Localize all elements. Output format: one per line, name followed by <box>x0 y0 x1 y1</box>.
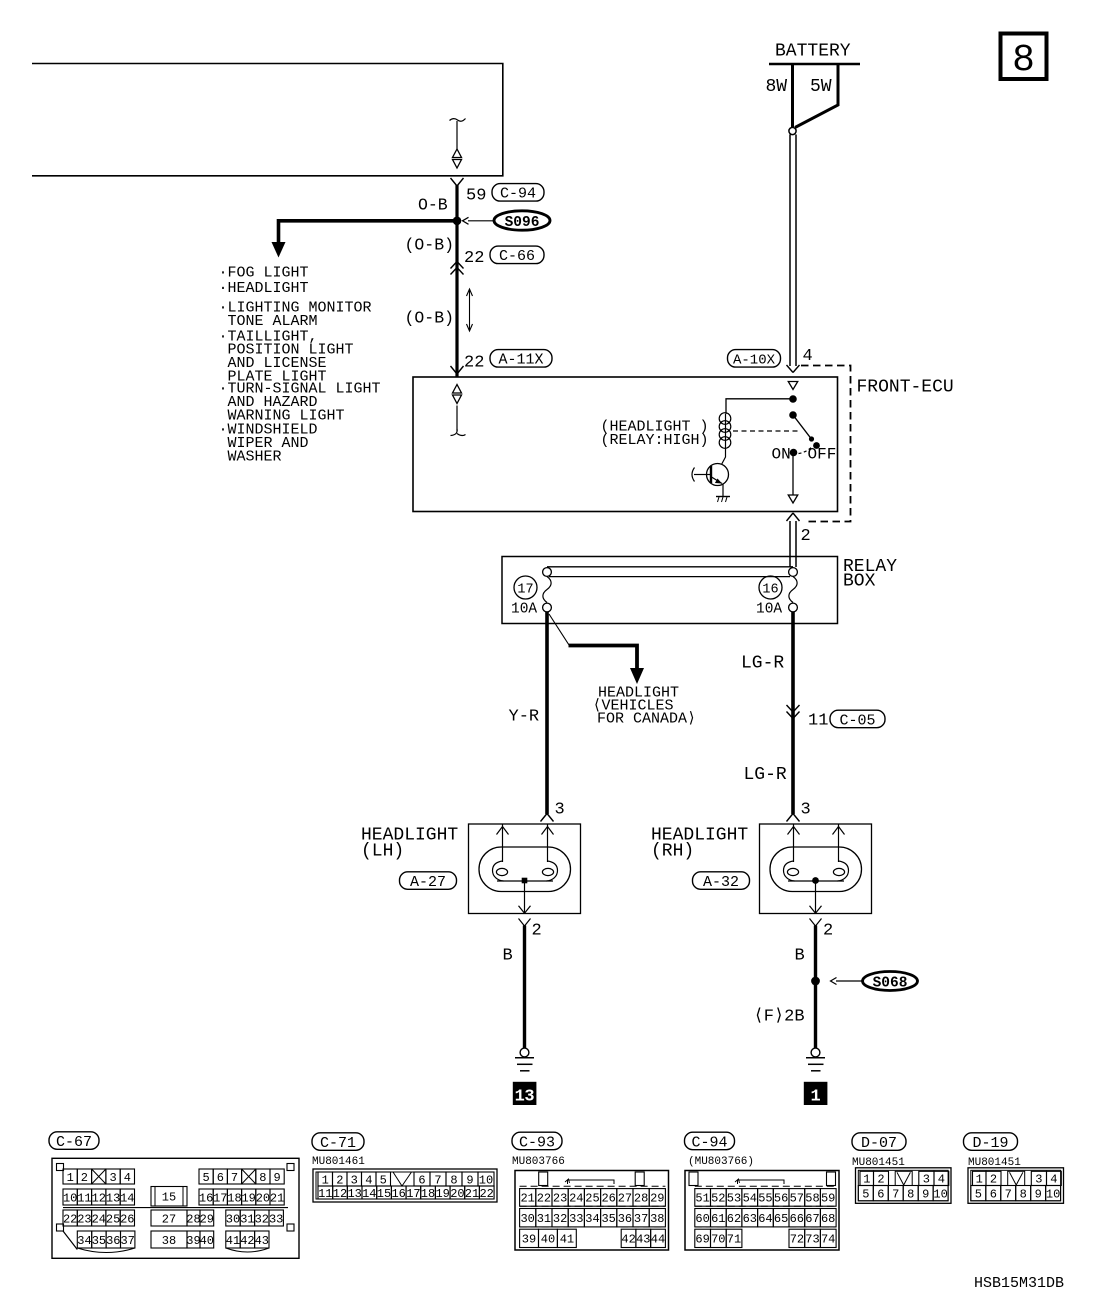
svg-text:10: 10 <box>479 1173 493 1187</box>
arrow to fog light etc. <box>272 242 286 258</box>
ECU pin 22 internal stub: double triangle <box>453 385 462 404</box>
fuse number 17 circled <box>514 576 537 599</box>
ground G1 <box>806 1048 825 1071</box>
svg-text:13: 13 <box>515 1088 535 1107</box>
svg-text:43: 43 <box>636 1233 650 1247</box>
svg-text:30: 30 <box>226 1212 240 1226</box>
transistor Q1 <box>692 450 729 497</box>
svg-text:1: 1 <box>810 1088 820 1107</box>
svg-text:6: 6 <box>990 1188 997 1202</box>
svg-text:C-05: C-05 <box>839 712 875 729</box>
svg-text:37: 37 <box>120 1234 134 1248</box>
svg-text:16: 16 <box>391 1187 405 1201</box>
svg-text:74: 74 <box>821 1233 835 1247</box>
svg-text:ON: ON <box>772 446 791 464</box>
splice S068 callout <box>831 972 918 992</box>
svg-text:2: 2 <box>81 1171 88 1185</box>
svg-text:2: 2 <box>336 1173 343 1187</box>
svg-text:C-93: C-93 <box>519 1134 555 1151</box>
svg-text:WASHER: WASHER <box>228 449 282 466</box>
connector C-93 pill <box>512 1132 562 1151</box>
drawing code HSB15M31DB <box>974 1275 1064 1292</box>
svg-text:14: 14 <box>362 1187 376 1201</box>
fuse 16 terminal top <box>789 568 798 577</box>
svg-text:OFF: OFF <box>808 446 837 464</box>
wire label LG-R <box>741 654 784 674</box>
svg-text:70: 70 <box>711 1233 725 1247</box>
svg-text:24: 24 <box>569 1192 583 1206</box>
connector cup at harness box exit <box>451 178 464 186</box>
svg-text:LG-R: LG-R <box>744 765 787 785</box>
svg-text:8: 8 <box>259 1171 266 1185</box>
fuse number 16 circled <box>759 576 782 599</box>
svg-text:A-27: A-27 <box>410 874 446 891</box>
wire stub inside harness box with curl terminal <box>450 119 466 150</box>
svg-text:13: 13 <box>106 1191 120 1205</box>
svg-text:5: 5 <box>202 1171 209 1185</box>
svg-text:29: 29 <box>650 1192 664 1206</box>
svg-text:17: 17 <box>406 1187 420 1201</box>
ECU internal ground <box>716 497 730 503</box>
svg-text:66: 66 <box>790 1212 804 1226</box>
connector cup below ECU <box>787 513 800 521</box>
svg-text:B: B <box>795 947 805 966</box>
battery feed wire (double line) down to A-10X <box>790 135 796 367</box>
connector C-94 pinout table <box>685 1171 839 1251</box>
svg-text:40: 40 <box>541 1233 555 1247</box>
headlight LH bulb and connector box A-27 <box>469 824 581 926</box>
connector C-93 pinout table <box>515 1171 669 1251</box>
svg-text:5: 5 <box>975 1188 982 1202</box>
svg-text:6: 6 <box>217 1171 224 1185</box>
double chevron pass-through (up) <box>451 262 464 275</box>
svg-text:26: 26 <box>120 1212 134 1226</box>
switch output wire <box>792 453 794 496</box>
label 8W <box>766 77 788 97</box>
svg-text:72: 72 <box>790 1233 804 1247</box>
svg-text:40: 40 <box>200 1234 214 1248</box>
svg-text:29: 29 <box>200 1212 214 1226</box>
svg-text:(LH): (LH) <box>361 842 404 862</box>
pin 4 label <box>803 347 813 366</box>
svg-text:HSB15M31DB: HSB15M31DB <box>974 1275 1064 1292</box>
wire label <F>2B <box>754 1008 805 1027</box>
fusible link 8W lead <box>791 64 794 128</box>
svg-text:S096: S096 <box>505 215 540 231</box>
svg-text:5: 5 <box>380 1173 387 1187</box>
svg-text:25: 25 <box>106 1212 120 1226</box>
svg-text:44: 44 <box>651 1233 665 1247</box>
wire label B RH <box>795 947 805 966</box>
svg-text:22: 22 <box>464 249 484 268</box>
svg-text:39: 39 <box>522 1233 536 1247</box>
svg-text:3: 3 <box>555 801 565 820</box>
svg-text:(O-B): (O-B) <box>405 236 455 255</box>
svg-text:C-94: C-94 <box>691 1134 727 1151</box>
svg-text:35: 35 <box>601 1212 615 1226</box>
connector D-07 pinout table <box>856 1168 952 1204</box>
svg-text:7: 7 <box>1005 1188 1012 1202</box>
battery node circle <box>789 127 796 134</box>
svg-text:9: 9 <box>1035 1188 1042 1202</box>
ECU internal wire stub with curl <box>451 406 466 436</box>
page number 8 box <box>1001 34 1047 83</box>
svg-text:41: 41 <box>226 1234 240 1248</box>
connector D-07 pill <box>852 1133 906 1152</box>
svg-text:4: 4 <box>803 347 813 366</box>
svg-text:18: 18 <box>227 1191 241 1205</box>
svg-text:1: 1 <box>863 1173 870 1187</box>
relay actuation dashed link <box>733 430 800 432</box>
headlight LH label <box>361 826 458 862</box>
svg-text:7: 7 <box>231 1171 238 1185</box>
svg-text:15: 15 <box>162 1191 176 1205</box>
svg-text:FOR CANADA⟩: FOR CANADA⟩ <box>597 711 696 728</box>
fuse 16 element <box>789 577 797 603</box>
svg-text:4: 4 <box>938 1173 945 1187</box>
fuse 17 terminal top <box>543 568 552 577</box>
svg-text:52: 52 <box>711 1192 725 1206</box>
pin 3 label RH <box>801 801 811 820</box>
canada branch arrow <box>569 646 645 685</box>
svg-text:8: 8 <box>907 1188 914 1202</box>
svg-text:18: 18 <box>421 1187 435 1201</box>
svg-text:·HEADLIGHT: ·HEADLIGHT <box>219 280 309 297</box>
connector A-32 pill <box>693 872 750 891</box>
svg-text:1: 1 <box>67 1171 74 1185</box>
wire label LG-R second <box>744 765 787 785</box>
connector A-10X pill <box>728 350 781 369</box>
svg-text:11: 11 <box>318 1187 332 1201</box>
wire label B LH <box>503 947 513 966</box>
svg-text:14: 14 <box>120 1191 134 1205</box>
connector C-71 pill <box>312 1133 364 1152</box>
FRONT-ECU label <box>857 378 954 398</box>
label OFF <box>808 446 837 464</box>
svg-text:3: 3 <box>109 1171 116 1185</box>
svg-text:31: 31 <box>240 1212 254 1226</box>
svg-text:8: 8 <box>450 1173 457 1187</box>
svg-text:6: 6 <box>877 1188 884 1202</box>
relay box <box>502 557 838 624</box>
svg-text:4: 4 <box>365 1173 372 1187</box>
wire B LH <box>523 926 526 1049</box>
headlight RH label <box>651 826 748 862</box>
svg-text:73: 73 <box>805 1233 819 1247</box>
switch blade <box>793 415 814 442</box>
svg-text:20: 20 <box>450 1187 464 1201</box>
svg-text:15: 15 <box>377 1187 391 1201</box>
svg-text:MU801461: MU801461 <box>312 1156 365 1168</box>
wire label (O-B) second <box>405 309 455 328</box>
svg-text:10: 10 <box>1046 1188 1060 1202</box>
pin 2 label LH <box>532 922 542 941</box>
svg-text:2: 2 <box>532 922 542 941</box>
svg-text:69: 69 <box>695 1233 709 1247</box>
fuse 16 rating 10A <box>756 602 782 618</box>
svg-text:O-B: O-B <box>418 196 448 215</box>
svg-text:26: 26 <box>601 1192 615 1206</box>
svg-text:58: 58 <box>805 1192 819 1206</box>
battery bus bar <box>769 63 860 66</box>
svg-text:30: 30 <box>520 1212 534 1226</box>
junction S096 dot <box>453 217 462 226</box>
svg-text:33: 33 <box>569 1212 583 1226</box>
connector C-05 pill <box>830 710 885 729</box>
svg-text:3: 3 <box>801 801 811 820</box>
ON contact dot <box>790 449 798 457</box>
svg-text:32: 32 <box>553 1212 567 1226</box>
svg-text:2: 2 <box>877 1173 884 1187</box>
wire label Y-R <box>509 708 540 727</box>
svg-text:71: 71 <box>727 1233 741 1247</box>
svg-text:2: 2 <box>990 1173 997 1187</box>
pin 22 label (A-11X) <box>464 354 484 373</box>
svg-text:39: 39 <box>186 1234 200 1248</box>
svg-text:34: 34 <box>77 1234 91 1248</box>
svg-text:11: 11 <box>808 712 828 731</box>
wire to relay coil <box>726 399 793 414</box>
svg-text:3: 3 <box>1035 1173 1042 1187</box>
svg-text:37: 37 <box>634 1212 648 1226</box>
ground number 13 <box>513 1082 537 1107</box>
pin 2 label RH <box>823 922 833 941</box>
svg-text:23: 23 <box>77 1212 91 1226</box>
svg-text:1: 1 <box>976 1173 983 1187</box>
pin 2 label <box>801 527 811 546</box>
FRONT-ECU box <box>413 377 838 512</box>
svg-text:Y-R: Y-R <box>509 708 540 727</box>
svg-text:56: 56 <box>774 1192 788 1206</box>
svg-text:13: 13 <box>347 1187 361 1201</box>
fuse 16 terminal bottom <box>789 603 798 612</box>
svg-text:19: 19 <box>241 1191 255 1205</box>
svg-text:38: 38 <box>162 1234 176 1248</box>
svg-text:10A: 10A <box>756 602 782 618</box>
dashboard harness box (partial, open left) <box>32 64 503 176</box>
svg-text:57: 57 <box>790 1192 804 1206</box>
svg-text:A-10X: A-10X <box>733 352 776 368</box>
OFF contact dot <box>813 442 820 449</box>
connector C-71 part number <box>312 1156 365 1168</box>
headlight RH bulb and connector box A-32 <box>760 824 872 926</box>
connector C-66 pill <box>490 246 544 265</box>
svg-text:(MU803766): (MU803766) <box>688 1156 754 1168</box>
svg-text:2: 2 <box>823 922 833 941</box>
wire O-B vertical main <box>455 185 458 377</box>
svg-text:A-32: A-32 <box>703 874 739 891</box>
svg-text:BOX: BOX <box>843 572 876 592</box>
svg-text:7: 7 <box>892 1188 899 1202</box>
svg-text:C-66: C-66 <box>499 248 535 265</box>
svg-text:33: 33 <box>269 1212 283 1226</box>
ground number 1 <box>804 1082 828 1107</box>
canada note text <box>593 685 697 728</box>
svg-text:⟨F⟩2B: ⟨F⟩2B <box>754 1008 805 1027</box>
svg-text:34: 34 <box>585 1212 599 1226</box>
canada branch leader <box>549 614 569 645</box>
wire B RH upper <box>814 926 817 1049</box>
svg-text:42: 42 <box>621 1233 635 1247</box>
connector D-19 pinout table <box>968 1168 1064 1204</box>
svg-text:36: 36 <box>106 1234 120 1248</box>
svg-text:22: 22 <box>537 1192 551 1206</box>
wire ECU to relay box (double line) <box>790 521 796 567</box>
connector A-11X pill <box>490 350 552 369</box>
svg-text:32: 32 <box>255 1212 269 1226</box>
svg-text:59: 59 <box>821 1192 835 1206</box>
svg-text:61: 61 <box>711 1212 725 1226</box>
svg-text:17: 17 <box>213 1191 227 1205</box>
svg-text:4: 4 <box>1050 1173 1057 1187</box>
svg-text:25: 25 <box>585 1192 599 1206</box>
svg-text:35: 35 <box>92 1234 106 1248</box>
svg-text:MU803766: MU803766 <box>512 1156 565 1168</box>
switch pivot dot <box>789 411 797 419</box>
svg-text:5: 5 <box>862 1188 869 1202</box>
svg-text:28: 28 <box>186 1212 200 1226</box>
svg-text:D-07: D-07 <box>861 1135 897 1152</box>
svg-text:16: 16 <box>199 1191 213 1205</box>
ground G13 <box>515 1048 534 1071</box>
svg-text:10A: 10A <box>511 602 537 618</box>
connector D-07 part number <box>852 1157 905 1169</box>
svg-text:42: 42 <box>240 1234 254 1248</box>
splice S096 callout <box>463 211 551 231</box>
connector A-27 pill <box>400 872 457 891</box>
fuse 17 element <box>543 577 551 603</box>
svg-text:8: 8 <box>1020 1188 1027 1202</box>
connector D-19 part number <box>968 1157 1021 1169</box>
svg-text:64: 64 <box>758 1212 772 1226</box>
svg-text:17: 17 <box>517 583 533 598</box>
connector C-67 pinout table <box>52 1158 299 1258</box>
connector C-71 pinout table <box>313 1169 497 1202</box>
svg-text:6: 6 <box>418 1173 425 1187</box>
svg-text:12: 12 <box>92 1191 106 1205</box>
svg-text:9: 9 <box>273 1171 280 1185</box>
wire label O-B <box>418 196 448 215</box>
fusible link 5W lead <box>795 64 838 128</box>
svg-text:2: 2 <box>801 527 811 546</box>
svg-text:(RELAY:HIGH): (RELAY:HIGH) <box>601 432 709 449</box>
fuse 17 terminal bottom <box>543 603 552 612</box>
svg-text:9: 9 <box>922 1188 929 1202</box>
svg-text:43: 43 <box>255 1234 269 1248</box>
ECU node A dot <box>789 395 797 403</box>
svg-text:(O-B): (O-B) <box>405 309 455 328</box>
pin 11 label <box>808 712 828 731</box>
svg-text:8W: 8W <box>766 77 788 97</box>
svg-text:11: 11 <box>77 1191 91 1205</box>
connector C-94 part number <box>688 1156 754 1168</box>
relay switch input triangle (pin 4) <box>788 382 798 390</box>
connector C-93 part number <box>512 1156 565 1168</box>
size difference arrow (vertical, both ends) <box>467 289 473 331</box>
svg-text:3: 3 <box>351 1173 358 1187</box>
svg-text:A-11X: A-11X <box>498 352 543 369</box>
svg-text:51: 51 <box>695 1192 709 1206</box>
connector C-94 pill (bottom) <box>685 1132 735 1151</box>
svg-text:5W: 5W <box>810 77 832 97</box>
svg-text:3: 3 <box>923 1173 930 1187</box>
svg-text:10: 10 <box>933 1188 947 1202</box>
wire LG-R from fuse 16 <box>791 612 795 814</box>
svg-text:22: 22 <box>479 1187 493 1201</box>
battery label <box>775 42 851 62</box>
connector D-19 pill <box>964 1133 1018 1152</box>
svg-text:(RH): (RH) <box>651 842 694 862</box>
svg-text:1: 1 <box>322 1173 329 1187</box>
svg-text:C-67: C-67 <box>56 1134 92 1151</box>
wire label (O-B) <box>405 236 455 255</box>
svg-text:FRONT-ECU: FRONT-ECU <box>857 378 954 398</box>
svg-text:12: 12 <box>333 1187 347 1201</box>
svg-text:67: 67 <box>805 1212 819 1226</box>
svg-text:C-94: C-94 <box>500 186 536 203</box>
svg-text:28: 28 <box>634 1192 648 1206</box>
svg-text:·FOG LIGHT: ·FOG LIGHT <box>219 265 309 282</box>
page-link double triangle symbol (harness box) <box>453 149 462 168</box>
svg-text:D-19: D-19 <box>972 1135 1008 1152</box>
pin 22 label <box>464 249 484 268</box>
connector C-94 pill <box>492 184 544 203</box>
svg-text:20: 20 <box>256 1191 270 1205</box>
label 5W <box>810 77 832 97</box>
svg-text:59: 59 <box>466 187 486 206</box>
relay box label <box>843 557 897 592</box>
svg-text:7: 7 <box>434 1173 441 1187</box>
svg-text:23: 23 <box>553 1192 567 1206</box>
wire O-B horizontal branch <box>279 221 458 243</box>
svg-text:21: 21 <box>465 1187 479 1201</box>
svg-text:22: 22 <box>63 1212 77 1226</box>
connector cup at A-10X <box>787 365 800 373</box>
connector C-67 pill <box>49 1132 99 1151</box>
relay output triangle (pin 2) <box>788 495 798 503</box>
svg-text:65: 65 <box>774 1212 788 1226</box>
relay coil L1 (headlight relay high) <box>719 413 731 450</box>
svg-text:31: 31 <box>537 1212 551 1226</box>
svg-text:53: 53 <box>727 1192 741 1206</box>
fuse 17 rating 10A <box>511 602 537 618</box>
svg-text:C-71: C-71 <box>320 1135 356 1152</box>
svg-text:22: 22 <box>464 354 484 373</box>
chevron at headlight LH pin 3 <box>541 814 554 822</box>
svg-text:27: 27 <box>618 1192 632 1206</box>
svg-text:TONE ALARM: TONE ALARM <box>228 313 318 330</box>
FRONT-ECU dashed boundary <box>801 366 851 522</box>
svg-text:24: 24 <box>92 1212 106 1226</box>
svg-text:62: 62 <box>727 1212 741 1226</box>
svg-text:38: 38 <box>650 1212 664 1226</box>
svg-text:21: 21 <box>270 1191 284 1205</box>
pin 3 label LH <box>555 801 565 820</box>
svg-text:S068: S068 <box>873 976 908 992</box>
connector cup at FRONT-ECU entry <box>451 366 464 374</box>
bus bar (double line) <box>547 567 793 577</box>
svg-text:41: 41 <box>560 1233 574 1247</box>
svg-text:54: 54 <box>743 1192 757 1206</box>
relay name text <box>601 419 709 450</box>
svg-text:55: 55 <box>758 1192 772 1206</box>
chevron at headlight RH pin 3 <box>787 814 800 822</box>
svg-text:60: 60 <box>695 1212 709 1226</box>
svg-text:8: 8 <box>1012 39 1035 82</box>
svg-text:9: 9 <box>466 1173 473 1187</box>
load list text block <box>219 265 381 466</box>
svg-text:63: 63 <box>743 1212 757 1226</box>
